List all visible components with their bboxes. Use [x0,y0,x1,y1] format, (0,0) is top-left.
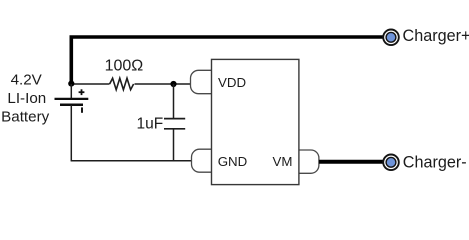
wire: battery negative down to bottom rail [70,105,72,161]
wire: junction down to capacitor [173,84,175,118]
node: capacitor top junction [170,81,176,87]
wire: capacitor to bottom rail [173,130,175,161]
svg-text:VM: VM [273,154,293,169]
pin VDD tab [191,70,212,93]
battery BT1 positive plate [55,98,89,100]
svg-text:LI-Ion: LI-Ion [7,90,46,107]
capacitor C1 top plate [164,118,185,120]
svg-text:1uF: 1uF [137,116,164,133]
battery minus tick [81,107,83,112]
battery BT1 negative plate [60,104,83,107]
wire: junction down to battery plate [70,84,72,99]
IC U1 body [212,59,299,184]
pin VM tab [299,150,319,173]
svg-text:Charger-: Charger- [403,153,467,171]
svg-text:Battery: Battery [1,109,50,126]
wire thick: battery positive up and across top to Charger+ [71,37,383,84]
svg-text:100Ω: 100Ω [105,58,144,75]
svg-text:4.2V: 4.2V [11,72,43,89]
capacitor C1 bottom plate [164,128,185,130]
wire thick: VM pin to Charger- [319,160,383,164]
svg-text:VDD: VDD [218,75,246,90]
terminal Charger+ connector [383,30,399,46]
pin GND tab [192,149,212,172]
wire: bottom rail to GND pin [71,160,192,162]
node: battery positive junction [68,81,74,87]
wire: battery top node to resistor [71,83,109,85]
battery plus sign [79,89,85,95]
svg-text:GND: GND [218,154,248,169]
svg-text:Charger+: Charger+ [403,27,469,45]
terminal Charger- connector [383,155,399,171]
wire: resistor to VDD pin with junction [135,83,191,85]
battery value label 4.2V LI-Ion Battery [1,72,50,126]
resistor R1 [110,78,134,90]
